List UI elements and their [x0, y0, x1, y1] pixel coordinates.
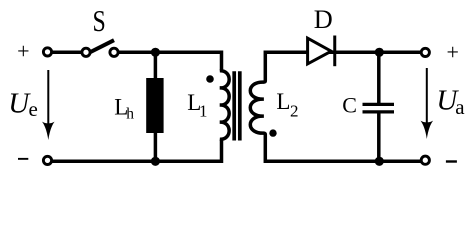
capacitor C plates [363, 103, 395, 106]
label - (output) [446, 160, 457, 162]
junction dot bottom of Lh [151, 157, 160, 166]
arrow Ua shaft [426, 68, 428, 127]
junction dot top of C [375, 48, 384, 57]
label - (input) [18, 158, 28, 160]
switch contact circle right [110, 48, 118, 56]
diode D cathode bar [333, 36, 336, 67]
terminal circle + input [43, 48, 51, 56]
svg-text:e: e [29, 97, 38, 121]
transformer core bar 2 [238, 71, 242, 140]
polarity dot L1 [206, 75, 214, 83]
arrow Ue head [42, 122, 55, 140]
svg-text:S: S [92, 3, 105, 38]
diode D triangle [308, 38, 332, 64]
svg-text:C: C [342, 92, 357, 117]
transformer core bar 1 [232, 71, 236, 140]
svg-text:D: D [314, 5, 333, 34]
arrow Ua head [421, 121, 434, 139]
polarity dot L2 [269, 129, 276, 136]
inductor Lh (filled rectangle) [146, 78, 163, 133]
svg-text:2: 2 [290, 102, 299, 121]
wire: switch contact to primary loop (top, right side, around L1, bottom) [48, 52, 230, 161]
terminal circle + output [421, 48, 429, 56]
svg-text:+: + [17, 39, 29, 64]
switch contact circle left [82, 48, 90, 56]
svg-text:1: 1 [199, 102, 208, 121]
terminal circle - input [43, 156, 51, 164]
svg-text:L: L [276, 89, 290, 114]
svg-text:h: h [126, 106, 134, 123]
junction dot bottom of C [375, 157, 384, 166]
wire: secondary loop (L2 left side, bottom to output) [250, 52, 425, 161]
terminal circle - output [421, 156, 429, 164]
wire: Lh branch vertical [154, 52, 158, 161]
wire: top secondary from diode to + output [310, 51, 426, 55]
switch S blade [88, 40, 115, 53]
wire: capacitor branch bottom [377, 113, 381, 161]
wire: + input terminal to switch contact [48, 51, 87, 55]
arrow Ue shaft [47, 70, 49, 128]
wire: capacitor branch top [377, 52, 381, 103]
junction dot top of Lh [151, 48, 160, 57]
svg-text:a: a [455, 95, 465, 119]
svg-text:+: + [446, 40, 458, 65]
